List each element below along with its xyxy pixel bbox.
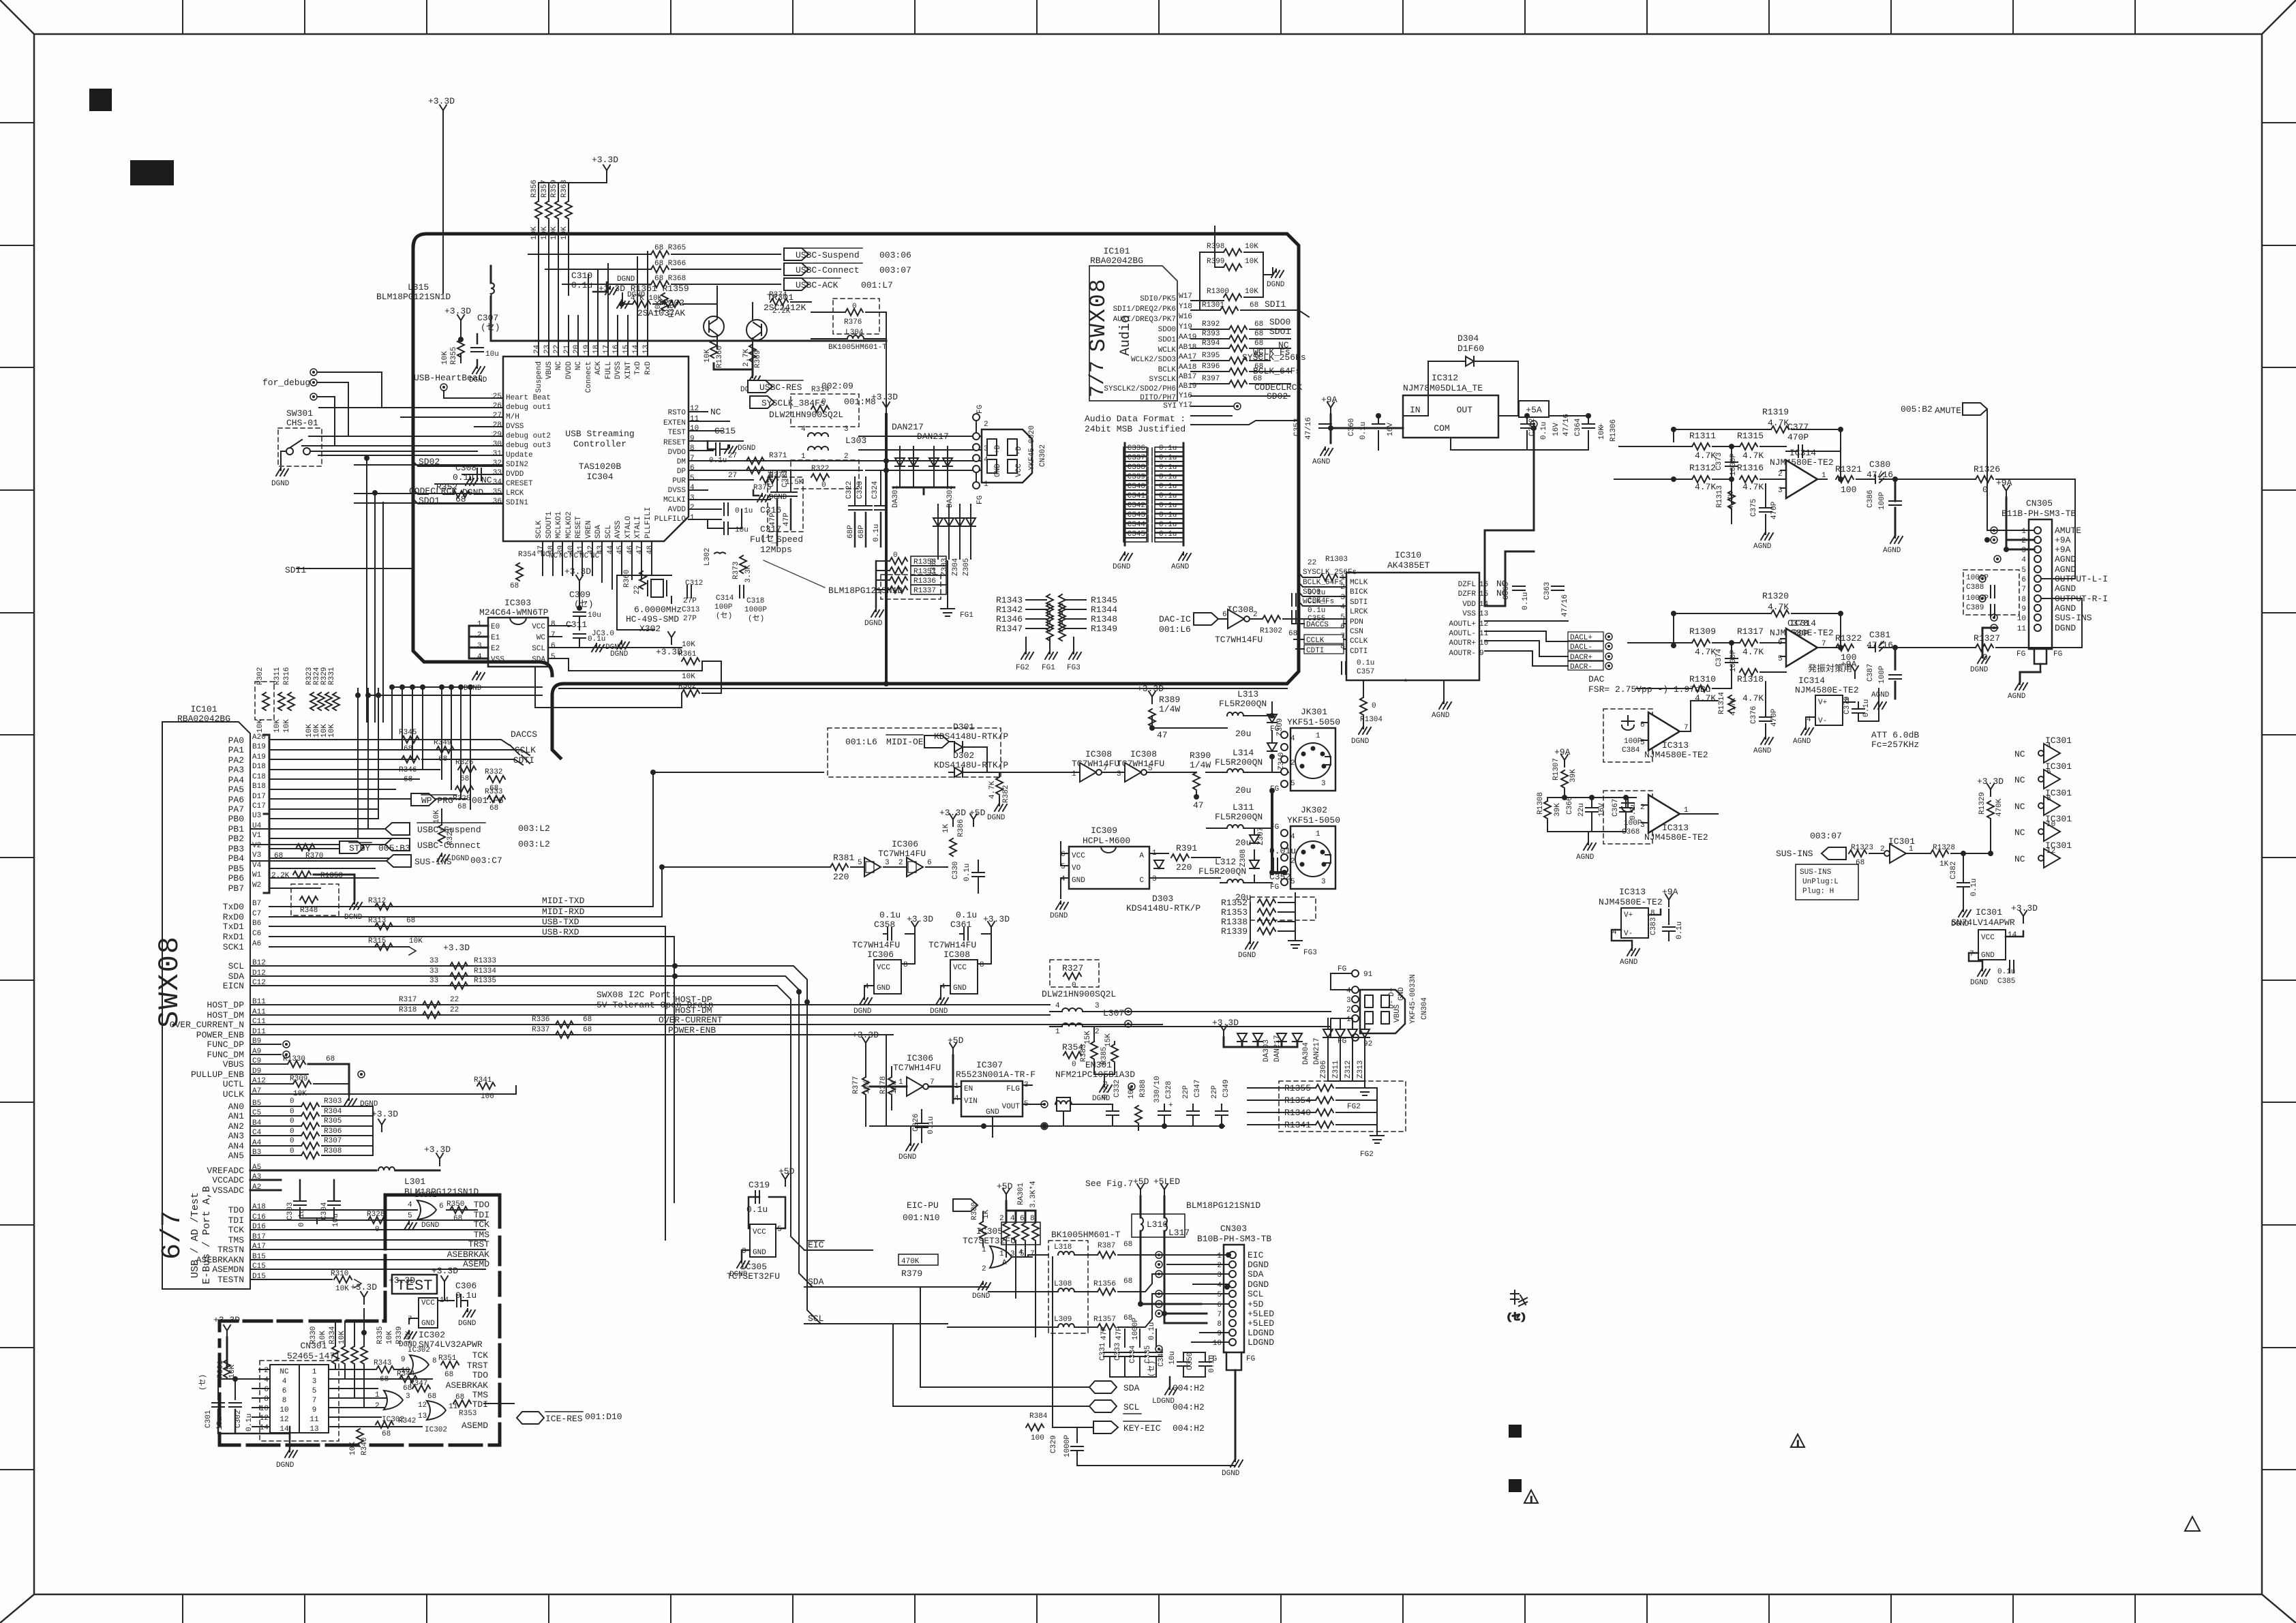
svg-text:DGND: DGND — [1050, 912, 1068, 920]
DACL/DACR boxed labels — [1485, 621, 1612, 671]
resistor R332 — [485, 768, 505, 793]
svg-text:D303: D303 — [1152, 894, 1173, 904]
C306 0.1u — [444, 1281, 477, 1328]
svg-text:IC305: IC305 — [976, 1226, 1003, 1237]
dashed C368 — [1603, 791, 1652, 844]
svg-text:34: 34 — [493, 479, 502, 487]
TDO..TESTN wires — [250, 1210, 485, 1279]
svg-text:IC310: IC310 — [1395, 550, 1421, 560]
svg-text:5: 5 — [312, 1387, 317, 1395]
svg-text:10K: 10K — [433, 810, 441, 823]
svg-text:D18: D18 — [252, 763, 266, 771]
svg-text:8: 8 — [282, 1397, 287, 1405]
svg-text:0.1u: 0.1u — [455, 1290, 477, 1301]
connector verticals SD02/SDO1 down to left area — [367, 458, 542, 722]
svg-text:(セ): (セ) — [481, 322, 500, 333]
second midi channel — [787, 791, 1340, 960]
svg-text:1: 1 — [898, 1078, 903, 1087]
svg-text:CSN: CSN — [1350, 628, 1363, 636]
svg-text:100P: 100P — [1878, 491, 1886, 510]
svg-text:R336: R336 — [532, 1016, 549, 1024]
svg-text:CCLK: CCLK — [1306, 637, 1325, 645]
svg-text:IC302: IC302 — [408, 1346, 430, 1354]
svg-text:VREN: VREN — [585, 521, 593, 539]
svg-text:PB4: PB4 — [228, 853, 245, 864]
svg-text:R379: R379 — [901, 1269, 922, 1279]
svg-text:10K: 10K — [338, 1331, 346, 1344]
L315 inductor — [376, 266, 886, 341]
svg-text:W1: W1 — [252, 871, 262, 879]
svg-text:17: 17 — [603, 345, 611, 354]
svg-text:R1321: R1321 — [1835, 464, 1862, 474]
svg-text:DGND: DGND — [1267, 281, 1285, 289]
DA303 DA304 + Z306 Z311 Z312 Z313 — [1212, 1018, 1372, 1111]
R341 100 — [474, 1076, 495, 1101]
svg-text:C360: C360 — [1348, 419, 1356, 436]
svg-text:AGND: AGND — [1871, 691, 1890, 699]
svg-text:6: 6 — [1217, 1301, 1222, 1309]
svg-text:V1: V1 — [252, 832, 262, 840]
svg-text:68: 68 — [510, 582, 519, 590]
R392-R397 rows — [1191, 317, 1306, 425]
svg-text:IC313: IC313 — [1662, 740, 1689, 750]
svg-text:R311: R311 — [273, 667, 282, 685]
resistor R346 — [399, 756, 419, 784]
svg-text:SCK1: SCK1 — [223, 942, 244, 952]
svg-text:R1347: R1347 — [996, 624, 1023, 634]
svg-text:(セ): (セ) — [1147, 1361, 1156, 1377]
svg-text:R1309: R1309 — [1689, 626, 1716, 637]
svg-text:DGND: DGND — [769, 494, 787, 502]
svg-text:68: 68 — [1254, 330, 1263, 338]
svg-text:0: 0 — [290, 1117, 294, 1125]
svg-text:Controller: Controller — [573, 439, 626, 449]
svg-text:DGND: DGND — [421, 1222, 440, 1230]
svg-text:R1346: R1346 — [996, 614, 1023, 624]
svg-text:52465-1471: 52465-1471 — [287, 1351, 340, 1361]
svg-text:AGND: AGND — [1753, 543, 1772, 551]
svg-text:13: 13 — [418, 1412, 427, 1421]
svg-text:TEST: TEST — [668, 429, 686, 437]
svg-text:5: 5 — [551, 653, 556, 661]
svg-text:FG: FG — [2053, 650, 2062, 658]
svg-text:BK1005HM601-T: BK1005HM601-T — [828, 344, 887, 352]
top pin stubs — [539, 252, 648, 357]
svg-text:AA18: AA18 — [1179, 363, 1196, 371]
svg-text:FG2: FG2 — [1347, 1103, 1361, 1111]
svg-text:M/H: M/H — [506, 413, 519, 421]
svg-text:C384: C384 — [1622, 746, 1640, 755]
svg-text:DVSS: DVSS — [668, 487, 686, 495]
OR gate lower left — [375, 1391, 410, 1424]
svg-text:AN0: AN0 — [228, 1102, 244, 1112]
svg-text:2: 2 — [2021, 537, 2026, 545]
svg-text:2SA1037AK: 2SA1037AK — [637, 308, 685, 318]
svg-text:DGND: DGND — [1238, 952, 1256, 960]
C316 C317 + L302 + R373 — [701, 503, 903, 596]
left pin names — [1350, 579, 1368, 656]
svg-text:DA304: DA304 — [1302, 1042, 1310, 1065]
svg-text:+3.3D: +3.3D — [983, 914, 1010, 924]
svg-text:NC: NC — [710, 407, 721, 417]
R327 dashed + L307 + R354b — [1050, 960, 1099, 987]
svg-text:8: 8 — [903, 961, 908, 969]
svg-text:TRST: TRST — [468, 1239, 489, 1249]
svg-text:DGND: DGND — [2055, 623, 2076, 633]
VREFADC wires + L301 — [250, 1144, 479, 1197]
crystal X302 — [592, 570, 767, 658]
svg-text:L308: L308 — [1054, 1280, 1072, 1288]
svg-text:+: + — [1168, 1102, 1173, 1110]
svg-text:0.1u: 0.1u — [1522, 592, 1530, 610]
svg-text:+3.3D: +3.3D — [1977, 776, 2004, 787]
svg-text:R370: R370 — [305, 852, 323, 860]
resistor R333 — [485, 788, 505, 813]
svg-text:VCC: VCC — [1072, 852, 1085, 860]
svg-text:R371: R371 — [769, 452, 787, 460]
svg-text:C383: C383 — [1650, 917, 1658, 935]
svg-text:C308: C308 — [455, 463, 477, 473]
svg-text:W2: W2 — [252, 881, 261, 890]
svg-text:2: 2 — [982, 1265, 986, 1273]
svg-text:AGND: AGND — [2055, 603, 2076, 613]
svg-text:NC: NC — [280, 1368, 289, 1376]
svg-text:RxD0: RxD0 — [223, 912, 244, 922]
svg-text:2: 2 — [690, 504, 695, 512]
svg-text:68: 68 — [274, 852, 283, 860]
svg-text:22: 22 — [553, 345, 561, 354]
right pin labels — [654, 409, 686, 524]
PA row wires — [269, 740, 494, 809]
svg-text:CHS-01: CHS-01 — [286, 418, 318, 428]
svg-text:12: 12 — [280, 1416, 288, 1424]
svg-text:10K: 10K — [409, 937, 423, 945]
svg-text:RBA02042BG: RBA02042BG — [1090, 256, 1143, 266]
SW301 CHS-01 switch — [271, 408, 477, 488]
svg-text:BCLK: BCLK — [1158, 366, 1177, 374]
svg-text:R304: R304 — [324, 1108, 342, 1116]
svg-text:SD02: SD02 — [419, 457, 440, 467]
svg-text:C7: C7 — [252, 910, 261, 918]
IC302 power box VCC/GND — [399, 1288, 483, 1350]
svg-text:5: 5 — [1020, 1250, 1025, 1258]
C303 C304 caps — [286, 1180, 340, 1227]
svg-text:C333: C333 — [1114, 1343, 1122, 1361]
svg-text:R376: R376 — [844, 318, 862, 327]
SCL SDA EICN long wires — [250, 966, 821, 1324]
vertical bank wires going up from PA rows — [392, 688, 470, 809]
svg-text:C348: C348 — [1158, 1349, 1166, 1367]
svg-text:3: 3 — [984, 445, 988, 453]
svg-text:Fc=257KHz: Fc=257KHz — [1871, 740, 1919, 750]
svg-text:68: 68 — [583, 1026, 592, 1034]
svg-text:R1310: R1310 — [1689, 674, 1716, 684]
svg-text:R1330: R1330 — [283, 1055, 305, 1063]
svg-text:1000P: 1000P — [1132, 1318, 1140, 1340]
svg-text:C379: C379 — [1843, 697, 1852, 714]
svg-text:D1F60: D1F60 — [1457, 344, 1484, 354]
C320 C321 dashed 47P — [768, 469, 803, 545]
vertical pullup resistors R330 R334 R335 R339 — [309, 1282, 413, 1408]
svg-text:C18: C18 — [252, 773, 266, 781]
svg-text:IC309: IC309 — [1091, 825, 1117, 836]
svg-text:6/7: 6/7 — [157, 1211, 188, 1260]
svg-text:0.1u: 0.1u — [1357, 659, 1374, 667]
svg-text:8: 8 — [690, 444, 695, 453]
svg-text:KEY-EIC: KEY-EIC — [1123, 1423, 1161, 1434]
svg-text:TCK: TCK — [472, 1350, 489, 1361]
svg-text:AUXI/DREQ3/PK7: AUXI/DREQ3/PK7 — [1113, 316, 1176, 324]
svg-text:MCLKI: MCLKI — [663, 496, 686, 504]
svg-text:7: 7 — [930, 1078, 935, 1087]
svg-text:Y19: Y19 — [1179, 323, 1192, 331]
svg-text:10K: 10K — [550, 226, 558, 240]
svg-text:SDO0: SDO0 — [1158, 326, 1176, 334]
svg-text:VCC: VCC — [877, 964, 890, 972]
via dots — [1991, 527, 1997, 534]
svg-text:68: 68 — [404, 776, 412, 784]
svg-text:EM301: EM301 — [1085, 1060, 1112, 1070]
svg-text:FG3: FG3 — [1303, 949, 1317, 957]
svg-text:+3.3D: +3.3D — [564, 566, 591, 577]
DGND near DVSS — [617, 291, 646, 308]
svg-text:B10B-PH-SM3-TB: B10B-PH-SM3-TB — [1197, 1234, 1271, 1244]
svg-text:6.0000MHz: 6.0000MHz — [634, 605, 682, 615]
svg-text:DGND: DGND — [987, 814, 1006, 822]
svg-text:14: 14 — [632, 344, 640, 354]
R1352 R1353 R1338 R1339 — [1250, 897, 1316, 920]
svg-text:SDI1: SDI1 — [1265, 299, 1286, 309]
svg-text:33: 33 — [493, 469, 502, 477]
svg-text:C367: C367 — [1612, 799, 1620, 817]
svg-text:10K: 10K — [349, 1442, 357, 1455]
svg-text:R340: R340 — [361, 1438, 369, 1455]
svg-text:L313: L313 — [1237, 689, 1258, 699]
TxD RxD wires — [269, 907, 674, 947]
svg-text:AGND: AGND — [1171, 563, 1190, 571]
svg-text:BLM18PG121SN1D: BLM18PG121SN1D — [376, 292, 451, 302]
svg-text:39K: 39K — [1569, 769, 1577, 783]
svg-text:1000P: 1000P — [1729, 650, 1738, 672]
svg-text:0.1u: 0.1u — [709, 457, 727, 465]
svg-text:0.1u: 0.1u — [873, 524, 881, 542]
SDA SCL KEY-EIC flags — [1089, 1381, 1117, 1393]
svg-text:+5LED: +5LED — [1153, 1177, 1180, 1187]
svg-text:R1316: R1316 — [1737, 463, 1764, 473]
AN0-AN5 resistors R303-R308 — [250, 1097, 373, 1159]
svg-text:GND: GND — [1072, 877, 1085, 885]
svg-text:NJM4580E-TE2: NJM4580E-TE2 — [1644, 832, 1708, 843]
svg-text:R389: R389 — [1159, 695, 1180, 705]
svg-text:2: 2 — [264, 1367, 269, 1375]
svg-text:OVER_CURRENT_N: OVER_CURRENT_N — [170, 1020, 244, 1030]
svg-text:0.1u: 0.1u — [963, 864, 971, 881]
left pin stubs: debug — [302, 398, 503, 503]
svg-text:IC307: IC307 — [976, 1060, 1003, 1070]
svg-text:CDTI: CDTI — [1306, 647, 1324, 655]
svg-text:0.1u: 0.1u — [1159, 530, 1177, 539]
svg-text:7: 7 — [690, 455, 695, 463]
svg-text:48: 48 — [646, 545, 654, 554]
svg-text:0.1u: 0.1u — [1159, 502, 1177, 510]
svg-text:R315: R315 — [368, 937, 386, 945]
svg-text:NC: NC — [549, 552, 558, 560]
svg-text:R1322: R1322 — [1835, 633, 1862, 643]
UCLK wire — [250, 1086, 516, 1094]
svg-text:VCC: VCC — [421, 1299, 435, 1307]
svg-text:220: 220 — [833, 872, 849, 882]
svg-text:C366: C366 — [1566, 797, 1574, 815]
svg-text:R1328: R1328 — [1933, 844, 1955, 852]
svg-text:AOUTR-: AOUTR- — [1449, 650, 1476, 658]
svg-text:CCLK: CCLK — [1350, 637, 1368, 646]
svg-text:AVSS: AVSS — [614, 520, 622, 539]
svg-text:E1: E1 — [491, 634, 500, 642]
svg-text:C342: C342 — [1128, 502, 1145, 510]
svg-text:PA4: PA4 — [228, 775, 245, 785]
svg-text:14: 14 — [260, 1424, 269, 1432]
svg-text:R1311: R1311 — [1689, 431, 1716, 441]
svg-text:4: 4 — [1055, 1002, 1060, 1010]
MIDI-OE dashed box with D301 D302 — [828, 728, 1001, 777]
svg-text:IC302: IC302 — [419, 1330, 445, 1340]
svg-text:C340: C340 — [1128, 483, 1145, 491]
R1360 10K — [704, 340, 724, 368]
svg-text:16V: 16V — [1598, 803, 1606, 817]
svg-text:GND: GND — [753, 1249, 766, 1257]
svg-text:6: 6 — [690, 464, 695, 472]
svg-text:GND: GND — [953, 984, 967, 992]
svg-text:0.1u: 0.1u — [956, 910, 977, 920]
svg-text:BCLK_64Fs: BCLK_64Fs — [1303, 579, 1343, 587]
bottom pin stubs — [543, 541, 652, 589]
svg-text:C329: C329 — [1050, 1436, 1058, 1453]
resistor bank R302 R311 R316 — [255, 667, 339, 738]
svg-text:GND: GND — [986, 1108, 999, 1117]
svg-text:10K: 10K — [328, 724, 336, 738]
svg-text:100: 100 — [1841, 485, 1856, 495]
svg-text:C338: C338 — [1128, 464, 1145, 472]
svg-text:DGND: DGND — [617, 275, 635, 284]
svg-text:A20: A20 — [252, 733, 266, 742]
svg-text:AB17: AB17 — [1179, 373, 1196, 381]
svg-text:A19: A19 — [252, 753, 266, 761]
dashed C384 — [1603, 709, 1652, 762]
svg-text:AVDD: AVDD — [668, 506, 686, 514]
wires CN301 to gates — [337, 1369, 432, 1427]
svg-text:20u: 20u — [1235, 729, 1251, 739]
svg-text:10K: 10K — [1245, 243, 1258, 251]
svg-text:YKF45-0033N: YKF45-0033N — [1409, 974, 1417, 1024]
svg-text:R1307: R1307 — [1552, 758, 1560, 780]
FG tab — [1224, 1352, 1244, 1370]
svg-text:4: 4 — [1290, 735, 1295, 743]
svg-text:PB7: PB7 — [228, 883, 244, 894]
svg-text:68P: 68P — [858, 525, 866, 539]
svg-text:001:D10: 001:D10 — [585, 1412, 622, 1422]
svg-text:(セ): (セ) — [1507, 1312, 1526, 1322]
svg-text:B19: B19 — [252, 743, 266, 751]
svg-text:R354 NC: R354 NC — [518, 551, 550, 559]
svg-text:MIDI-RXD: MIDI-RXD — [542, 907, 585, 917]
svg-text:2.2K: 2.2K — [772, 307, 791, 316]
USBC-Connect flag — [250, 838, 550, 851]
R374 2.2K — [769, 291, 811, 316]
svg-text:68: 68 — [326, 1055, 335, 1063]
svg-text:DACL-: DACL- — [1570, 643, 1592, 652]
svg-text:24bit MSB Justified: 24bit MSB Justified — [1085, 424, 1185, 434]
svg-text:5: 5 — [1290, 780, 1295, 788]
svg-text:3: 3 — [1217, 1271, 1222, 1279]
svg-text:L307: L307 — [1103, 1008, 1124, 1018]
TEST box — [392, 1275, 437, 1294]
svg-text:R1349: R1349 — [1091, 624, 1117, 634]
svg-text:27P: 27P — [683, 615, 697, 623]
R1307/R1308 — [1561, 755, 1568, 767]
svg-text:TC7WH14FU: TC7WH14FU — [928, 940, 976, 950]
svg-text:R302: R302 — [256, 667, 265, 685]
resistor grid R1343-R1349 — [996, 594, 1117, 672]
svg-text:R343: R343 — [374, 1359, 391, 1367]
svg-text:SDA: SDA — [1123, 1383, 1140, 1393]
svg-text:R361: R361 — [678, 650, 697, 658]
caps C354-C357 — [1292, 589, 1374, 676]
svg-text:Z312: Z312 — [1344, 1061, 1353, 1078]
svg-text:A: A — [1139, 852, 1144, 860]
svg-text:68: 68 — [1856, 859, 1864, 867]
svg-text:C314: C314 — [716, 594, 734, 603]
svg-text:C345: C345 — [1128, 530, 1145, 539]
svg-text:3: 3 — [1152, 875, 1157, 883]
svg-text:R326: R326 — [455, 759, 473, 767]
svg-text:100P: 100P — [1624, 819, 1642, 828]
svg-text:TxD0: TxD0 — [223, 902, 244, 912]
svg-text:0.1u: 0.1u — [1159, 444, 1177, 453]
svg-text:C387: C387 — [1867, 664, 1875, 682]
svg-text:TRSTN: TRSTN — [217, 1245, 244, 1255]
svg-text:23: 23 — [543, 345, 552, 354]
svg-text:003:L2: 003:L2 — [518, 823, 550, 834]
svg-text:24: 24 — [533, 344, 541, 354]
svg-text:DGND: DGND — [898, 1153, 917, 1162]
svg-text:D17: D17 — [252, 793, 266, 801]
svg-text:C330: C330 — [952, 862, 960, 879]
svg-text:1/4W: 1/4W — [1190, 760, 1211, 770]
svg-text:R335: R335 — [376, 1326, 384, 1344]
svg-text:0.1u: 0.1u — [1159, 521, 1177, 529]
svg-text:FG: FG — [1338, 1037, 1346, 1046]
svg-text:R384: R384 — [1029, 1412, 1048, 1421]
svg-text:6: 6 — [2021, 576, 2026, 584]
svg-text:D-: D- — [1388, 1000, 1396, 1009]
svg-text:C373: C373 — [1715, 453, 1723, 470]
svg-text:C328: C328 — [1165, 1081, 1173, 1099]
midi feeder wires — [648, 772, 824, 1240]
svg-text:R1342: R1342 — [996, 605, 1023, 615]
svg-text:AGND: AGND — [1753, 747, 1772, 755]
svg-text:VSS: VSS — [1462, 610, 1476, 618]
svg-text:36: 36 — [493, 498, 502, 506]
warning triangle 1 — [1791, 1434, 1804, 1448]
bottom pin numbers + labels — [535, 507, 654, 554]
svg-text:10K: 10K — [560, 226, 569, 240]
svg-text:D301: D301 — [953, 722, 974, 732]
svg-text:C317: C317 — [760, 524, 781, 534]
svg-text:2: 2 — [844, 453, 849, 461]
svg-text:AN1: AN1 — [228, 1111, 245, 1121]
svg-text:VCC: VCC — [753, 1228, 766, 1237]
+5D +5LED L310 L317 — [1137, 1184, 1144, 1196]
